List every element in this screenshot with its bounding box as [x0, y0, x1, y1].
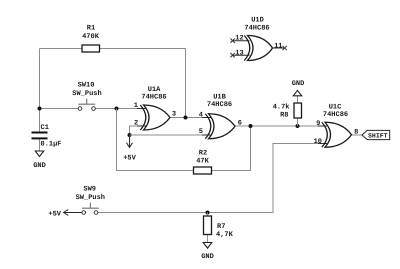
wire: R2 right side to U1B output node: [212, 126, 251, 171]
svg-text:13: 13: [235, 49, 243, 57]
svg-text:GND: GND: [292, 80, 305, 88]
wire: SW10 right pin to U1A pin1: [95, 108, 145, 110]
switch SW10: [72, 82, 101, 111]
svg-text:C1: C1: [41, 124, 49, 132]
svg-text:GND: GND: [201, 253, 214, 261]
capacitor C1: [32, 124, 62, 149]
svg-text:SW10: SW10: [78, 82, 95, 90]
ground below C1: [33, 151, 46, 170]
svg-text:1: 1: [134, 102, 138, 110]
wire: U1A pin2 bend to +5V node: [130, 126, 146, 135]
wire: R7 bottom stub to GND: [207, 235, 209, 243]
svg-text:+5V: +5V: [48, 211, 61, 219]
svg-text:4: 4: [199, 111, 203, 119]
svg-text:SW_Push: SW_Push: [72, 89, 101, 98]
resistor R2: [194, 150, 212, 175]
svg-text:10: 10: [314, 138, 322, 146]
power +5V at SW9 (left arrow): [48, 210, 81, 219]
node: junction U1A out / R1 feedback: [184, 116, 188, 120]
node: junction U1B out / R2: [249, 124, 253, 128]
op-amp U1A (XOR gate 74HC86): [134, 86, 176, 130]
svg-text:4.7k: 4.7k: [273, 102, 290, 111]
svg-text:U1D: U1D: [251, 17, 264, 25]
wire: left rail from R1 row down to C1: [39, 49, 41, 132]
svg-text:+5V: +5V: [123, 155, 136, 163]
node: junction R7 / SW9 row: [206, 211, 210, 215]
wire: feedback vertical from pin1 node down to R2 row: [117, 109, 194, 171]
svg-text:9: 9: [316, 120, 320, 128]
wire: R1 top row left segment: [40, 48, 83, 50]
svg-text:47K: 47K: [196, 158, 209, 166]
wire: R7 top stub: [207, 213, 209, 217]
resistor R7: [204, 216, 234, 239]
svg-text:5: 5: [199, 128, 203, 136]
svg-text:0.1µF: 0.1µF: [41, 141, 62, 149]
wire: +5V node to U1B pin5: [130, 134, 211, 136]
svg-text:11: 11: [274, 42, 282, 50]
no-connect x pin11: [283, 46, 287, 50]
svg-text:R8: R8: [280, 111, 288, 119]
no-connect x pin13: [230, 53, 234, 57]
svg-text:74HC86: 74HC86: [207, 101, 232, 109]
svg-text:R1: R1: [87, 25, 95, 33]
wire: C1 node to SW10 left pin: [40, 108, 79, 110]
svg-text:SHIFT: SHIFT: [368, 132, 388, 139]
wire: U1B output row to U1C pin9: [235, 125, 327, 127]
svg-text:470K: 470K: [82, 33, 100, 41]
wire: vertical from R1 row down to U1A output junction: [185, 49, 187, 118]
wire: R1 top row right segment: [100, 48, 186, 50]
svg-text:GND: GND: [33, 162, 46, 170]
op-amp U1B (XOR gate 74HC86): [199, 94, 242, 139]
node: junction +5V / U1B pin5: [128, 133, 132, 137]
resistor R8: [273, 102, 302, 119]
op-amp U1D (XOR gate 74HC86, unconnected): [230, 17, 287, 61]
wire: C1 bottom to GND: [39, 139, 41, 151]
node: SHIFT output label: [362, 130, 390, 139]
svg-text:R2: R2: [199, 150, 207, 158]
wire: U1C pin10 route down-left to SW9/R7 row: [98, 144, 327, 213]
wire: R8 top stub to GND: [297, 96, 299, 103]
svg-text:2: 2: [134, 119, 138, 127]
svg-text:74HC86: 74HC86: [244, 25, 269, 33]
svg-text:SW_Push: SW_Push: [76, 193, 105, 202]
wire: U1A output to U1B pin4: [170, 117, 211, 119]
svg-text:74HC86: 74HC86: [323, 111, 348, 119]
svg-text:8: 8: [354, 128, 358, 136]
switch SW9: [76, 185, 105, 214]
resistor R1: [82, 25, 100, 53]
ground below R7: [201, 243, 214, 262]
wire: U1C output to SHIFT flag: [352, 134, 363, 136]
node: junction R8 bottom: [296, 124, 300, 128]
svg-text:3: 3: [172, 110, 176, 118]
node: junction left rail / SW10: [38, 107, 42, 111]
power +5V below U1A pin2 (down arrow): [123, 135, 136, 163]
ground above R8: [292, 80, 305, 96]
node: junction U1A pin1 / feedback: [115, 107, 119, 111]
svg-text:R7: R7: [217, 223, 225, 231]
svg-text:12: 12: [235, 35, 243, 43]
wire: R8 bottom stub: [297, 118, 299, 126]
svg-text:4,7K: 4,7K: [216, 231, 234, 239]
svg-text:74HC86: 74HC86: [141, 94, 166, 102]
no-connect x pin12: [230, 39, 234, 43]
op-amp U1C (XOR gate 74HC86): [314, 104, 359, 148]
svg-text:6: 6: [238, 120, 242, 128]
svg-text:SW9: SW9: [83, 185, 96, 193]
